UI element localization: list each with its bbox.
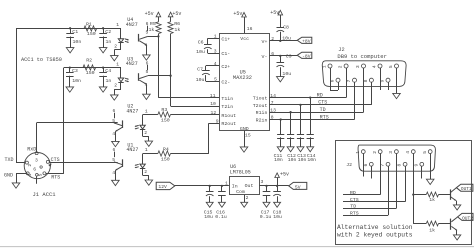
pin number labels MAX232 right and top/bottom	[245, 26, 276, 139]
svg-text:R2out: R2out	[221, 121, 236, 127]
svg-text:J2: J2	[346, 162, 352, 168]
svg-text:2: 2	[246, 195, 249, 201]
wire RTS from J1 pin 5 up to filter row 2	[46, 68, 121, 174]
label alternative solution	[337, 224, 413, 239]
stub alt pin 1	[363, 154, 365, 177]
svg-text:C4: C4	[105, 68, 111, 74]
label RTS	[51, 175, 60, 181]
label J2 (alternative)	[346, 162, 352, 168]
svg-text:4N27: 4N27	[126, 108, 138, 114]
svg-text:MAX232: MAX232	[233, 75, 252, 81]
capacitor C7 10u	[196, 66, 220, 84]
svg-text:DB9 to computer: DB9 to computer	[337, 53, 387, 60]
pin number labels MAX232 left	[210, 33, 219, 124]
svg-text:T1in: T1in	[221, 96, 233, 102]
svg-text:OUT2: OUT2	[462, 215, 473, 221]
capacitor C15 10u	[204, 185, 214, 220]
resistor R5 1k	[149, 17, 162, 34]
svg-text:10u: 10u	[196, 49, 205, 55]
svg-text:3: 3	[355, 65, 361, 68]
wire R6 to T2in and U3 collector node	[148, 34, 172, 106]
label CTS	[318, 100, 327, 106]
wire T2in from node to MAX232 pin 10	[171, 106, 220, 108]
label J2	[338, 47, 344, 53]
svg-text:16: 16	[247, 26, 253, 32]
stub from J1 bottom pin	[36, 176, 38, 184]
power +5v (Vcc pin 16)	[233, 11, 246, 33]
ground (Q2 emitter)	[453, 235, 460, 240]
svg-text:1: 1	[225, 181, 228, 187]
svg-text:10n: 10n	[298, 157, 307, 163]
svg-text:C3: C3	[72, 68, 78, 74]
connector J2 DB9	[321, 61, 406, 87]
IC U5 MAX232	[220, 34, 270, 133]
ground (C12)	[287, 147, 294, 152]
svg-text:1: 1	[321, 65, 327, 68]
svg-text:+5v: +5v	[280, 172, 289, 178]
svg-text:V+: V+	[262, 39, 268, 45]
svg-text:3: 3	[388, 151, 394, 154]
svg-text:1n: 1n	[106, 78, 112, 84]
svg-text:9: 9	[413, 163, 419, 166]
wire CTS (T2out pin 7 to J2 pin 8)	[269, 104, 371, 106]
svg-text:4N27: 4N27	[126, 61, 138, 67]
ground (LED cathode of U1)	[145, 180, 153, 185]
svg-text:1: 1	[116, 61, 119, 67]
ground (C14)	[307, 147, 314, 152]
resistor R4 150	[158, 147, 171, 163]
ground (LED cathode of U4)	[111, 56, 119, 61]
svg-text:15: 15	[245, 133, 251, 139]
optocoupler U2	[112, 103, 149, 141]
capacitor C13 10n	[297, 104, 304, 147]
label J1 ACC1	[33, 191, 57, 198]
wire J2 pin 3 to TD	[363, 68, 365, 112]
svg-text:150: 150	[87, 31, 96, 37]
svg-text:10n: 10n	[307, 157, 316, 163]
svg-text:1: 1	[116, 22, 119, 28]
svg-text:Com: Com	[236, 189, 245, 195]
svg-text:TXD: TXD	[5, 157, 14, 163]
capacitor C18 10u	[273, 185, 282, 220]
label alt RTS	[350, 211, 359, 217]
svg-text:1k: 1k	[149, 27, 155, 33]
wire J2 pin 2 to RD	[346, 68, 348, 98]
ground (alt pin 5)	[426, 179, 434, 184]
resistor base 1k (OUT1)	[426, 192, 450, 203]
svg-text:2: 2	[144, 130, 147, 136]
ground (emitter of U2)	[112, 141, 120, 146]
ground (emitter of U1)	[112, 180, 120, 185]
svg-text:1: 1	[355, 151, 361, 154]
svg-text:C8: C8	[283, 24, 289, 30]
svg-text:10u: 10u	[282, 71, 291, 77]
wire J2 pin 1 to pin 6 tie	[330, 68, 339, 91]
transistor Q2 (OUT2)	[451, 217, 458, 235]
power +5v (C8 top)	[270, 10, 282, 16]
svg-text:+5v: +5v	[145, 11, 154, 17]
capacitor C16 0.1u	[215, 185, 227, 220]
capacitor C4 1n	[99, 66, 111, 92]
svg-text:R3: R3	[161, 107, 167, 113]
svg-text:C2: C2	[105, 29, 111, 35]
svg-text:0.1u: 0.1u	[260, 214, 272, 220]
svg-text:6: 6	[113, 147, 116, 153]
capacitor C11 10n	[277, 118, 284, 146]
svg-text:5V: 5V	[295, 184, 301, 190]
wire alt pin 5 to ground	[430, 154, 432, 180]
svg-text:R4: R4	[163, 147, 169, 153]
net flag +8V	[297, 37, 312, 44]
ground (U6 common)	[241, 202, 248, 207]
svg-text:10u: 10u	[196, 77, 205, 83]
ground (C9)	[277, 77, 285, 82]
wire alt pin 4 keying feed	[412, 154, 426, 224]
svg-text:2: 2	[114, 43, 117, 49]
svg-text:1: 1	[145, 147, 148, 153]
svg-text:R1out: R1out	[221, 113, 236, 119]
wire V+ pin 2 to +8V	[269, 40, 297, 42]
capacitor C14 10n	[307, 96, 314, 146]
label RTS	[320, 114, 329, 120]
ground (C18)	[274, 202, 281, 207]
svg-text:1: 1	[145, 108, 148, 114]
capacitor C3 10n	[66, 66, 81, 92]
svg-text:3: 3	[261, 179, 264, 185]
svg-text:4: 4	[371, 65, 377, 68]
optocoupler U1	[112, 142, 149, 180]
svg-text:12V: 12V	[158, 184, 167, 190]
wire R5 to T1in and U4 collector node	[148, 34, 160, 98]
svg-text:8: 8	[397, 163, 403, 166]
label ACC1 to TS850	[21, 57, 62, 63]
svg-text:RTS: RTS	[350, 211, 359, 217]
wire alt RTS line to pin 7	[343, 166, 389, 215]
svg-text:5: 5	[146, 69, 149, 75]
label CTS	[51, 157, 60, 163]
ground (C11)	[277, 147, 284, 152]
svg-text:2: 2	[338, 65, 344, 68]
ground (emitter of U4)	[143, 55, 151, 60]
svg-text:R2: R2	[86, 57, 92, 63]
svg-text:1k: 1k	[429, 227, 435, 233]
IC U6 LM78L05 regulator	[225, 164, 264, 201]
svg-text:+5v: +5v	[270, 10, 279, 16]
svg-text:10u: 10u	[282, 35, 291, 41]
svg-text:5: 5	[422, 151, 428, 154]
label GND	[4, 173, 13, 179]
resistor R3 150	[158, 107, 171, 123]
svg-text:C1: C1	[72, 29, 78, 35]
ground (C15)	[206, 202, 213, 207]
label RD	[317, 92, 323, 98]
wire J2 pin 7 to RTS	[354, 82, 356, 119]
svg-text:R2in: R2in	[256, 118, 268, 124]
labels C11 C12 C13 C14 values	[274, 153, 317, 163]
wire R2out from MAX232 pin 9 through R4 to U1 LED	[143, 123, 220, 154]
svg-text:R5: R5	[150, 21, 156, 27]
label alt TD	[350, 204, 356, 210]
wire RD (T1out pin 14 to J2 pin 2)	[269, 97, 346, 99]
svg-text:+5v: +5v	[172, 11, 181, 17]
wire RxD from J1 pin 3 up to U2 collector	[37, 123, 118, 152]
svg-text:-8V: -8V	[302, 53, 311, 59]
label alt CTS	[350, 197, 359, 203]
label RxD	[27, 147, 36, 153]
svg-text:2: 2	[27, 164, 33, 167]
wire GND from J1 to ground	[16, 173, 26, 183]
svg-text:RTS: RTS	[320, 114, 329, 120]
svg-text:T2in: T2in	[221, 104, 233, 110]
svg-text:C2-: C2-	[221, 79, 230, 85]
svg-text:CTS: CTS	[350, 197, 359, 203]
svg-text:6: 6	[146, 21, 149, 27]
resistor R6 1k	[168, 17, 180, 34]
wire J2 pin 8 to CTS	[371, 82, 373, 105]
net flag 12V	[156, 182, 175, 190]
svg-text:TD: TD	[350, 204, 356, 210]
svg-text:2: 2	[144, 169, 147, 175]
net flag OUT2	[458, 213, 474, 221]
svg-text:+8V: +8V	[302, 38, 311, 44]
svg-text:OUT1: OUT1	[461, 186, 472, 192]
svg-text:ACC1 to TS850: ACC1 to TS850	[21, 57, 62, 63]
svg-text:1k: 1k	[174, 27, 180, 33]
connector J2 DB9 (alternative)	[355, 145, 436, 171]
wire TD (R1in pin 13 to J2 pin 3)	[269, 112, 363, 114]
ground (MAX232 pin 15)	[240, 147, 248, 152]
svg-text:RxD: RxD	[27, 147, 36, 153]
svg-text:5: 5	[112, 118, 115, 124]
capacitor C12 10n	[287, 111, 294, 147]
resistor R1 150	[84, 21, 97, 37]
power +5v (R5)	[145, 11, 161, 17]
svg-text:3: 3	[35, 157, 38, 163]
svg-text:LM78L05: LM78L05	[230, 170, 251, 176]
svg-text:10n: 10n	[73, 39, 82, 45]
svg-text:Vcc: Vcc	[240, 36, 249, 42]
svg-text:GND: GND	[4, 173, 13, 179]
svg-text:C1+: C1+	[221, 36, 230, 42]
svg-text:10n: 10n	[72, 78, 81, 84]
svg-text:C1-: C1-	[221, 51, 230, 57]
power +5v (regulator output)	[275, 172, 289, 186]
net flag OUT1	[456, 184, 473, 192]
bottom frame line	[0, 246, 474, 248]
wire V- pin 6 to -8V	[269, 55, 297, 57]
resistor R2 150	[83, 57, 96, 76]
svg-text:0.1u: 0.1u	[215, 214, 227, 220]
svg-text:4: 4	[112, 170, 115, 176]
svg-text:10u: 10u	[204, 214, 213, 220]
ground (J2 pin 5)	[393, 93, 401, 98]
optocoupler U4 (U-series)	[114, 17, 148, 56]
svg-text:R1in: R1in	[256, 110, 268, 116]
svg-text:RD: RD	[317, 92, 323, 98]
svg-text:C7: C7	[197, 66, 203, 72]
capacitor C2 1n	[99, 27, 111, 53]
svg-text:C6: C6	[198, 39, 204, 45]
connector J1 (ACC1 DIN socket)	[24, 152, 51, 179]
svg-text:2: 2	[114, 83, 117, 89]
wire J2 pin 5 to ground	[396, 68, 398, 93]
box alternative solution	[336, 141, 472, 245]
svg-text:5: 5	[388, 65, 394, 68]
label alt RD	[350, 190, 356, 196]
svg-text:C2+: C2+	[221, 64, 230, 70]
svg-text:4: 4	[145, 82, 148, 88]
svg-text:T1out: T1out	[253, 96, 268, 102]
wire R1out from MAX232 pin 12 through R3 to U2 LED	[143, 114, 220, 116]
capacitor C17 0.1u	[260, 185, 272, 220]
ground (Q1 emitter)	[453, 205, 460, 210]
wire 12V to regulator input	[175, 185, 229, 187]
svg-text:1k: 1k	[429, 197, 435, 203]
svg-text:10: 10	[210, 101, 216, 107]
wire alt RD line to pin 2	[343, 154, 381, 195]
stub alt pin 6	[371, 166, 373, 178]
svg-text:7: 7	[271, 100, 274, 106]
svg-text:2: 2	[271, 36, 274, 42]
svg-text:11: 11	[210, 93, 216, 99]
ground (LED cathode of U2)	[145, 141, 153, 146]
label TXD	[5, 157, 14, 163]
wire T1in from node to MAX232 pin 11	[158, 97, 219, 99]
wire regulator output to 5V	[259, 185, 288, 187]
wire alt CTS line to pin 8	[343, 166, 406, 202]
svg-text:Out: Out	[245, 183, 254, 189]
ground (C16)	[218, 202, 225, 207]
svg-text:1n: 1n	[106, 39, 112, 45]
svg-text:10n: 10n	[288, 157, 297, 163]
svg-text:In: In	[232, 183, 238, 189]
svg-text:10u: 10u	[273, 214, 282, 220]
ground (LED cathode of U3)	[111, 95, 119, 100]
svg-text:5: 5	[38, 173, 44, 176]
svg-text:4: 4	[112, 131, 115, 137]
svg-text:TD: TD	[320, 107, 326, 113]
svg-text:J1 ACC1: J1 ACC1	[33, 191, 57, 198]
net flag -8V	[297, 52, 312, 59]
stub J2 pin 4	[380, 68, 382, 90]
svg-text:R1: R1	[86, 21, 92, 27]
net flag 5V	[289, 182, 307, 190]
wire alt TD line to pin 3	[343, 154, 397, 209]
svg-text:10n: 10n	[274, 157, 283, 163]
svg-text:4: 4	[145, 43, 148, 49]
capacitor C6 10u	[196, 38, 219, 55]
svg-text:CTS: CTS	[318, 100, 327, 106]
wire RTS (R2in pin 8 to J2 pin 7)	[269, 119, 354, 121]
ground (J1 GND pin)	[12, 183, 20, 188]
ground (C13)	[297, 147, 304, 152]
stub alt pin 9	[421, 166, 423, 178]
svg-text:4: 4	[405, 151, 411, 154]
label TD	[320, 107, 326, 113]
svg-text:2: 2	[372, 151, 378, 154]
optocoupler U3 (U-series)	[114, 56, 148, 95]
wire GND pin 15	[244, 131, 246, 147]
svg-text:4N27: 4N27	[126, 22, 138, 28]
svg-text:150: 150	[86, 70, 95, 76]
wire regulator common pin 2	[244, 195, 246, 202]
svg-text:12: 12	[211, 110, 217, 116]
capacitor C9 10u	[277, 54, 292, 77]
wire TXD from J1 pin 2 to filter row 1	[16, 28, 121, 162]
capacitor C1 10n	[66, 27, 81, 53]
label DB9 to computer	[337, 53, 387, 60]
wire CTS from J1 pin 1 to U1 collector	[49, 162, 117, 164]
ground (emitter of U3)	[143, 94, 151, 99]
svg-text:150: 150	[161, 117, 170, 123]
svg-text:C9: C9	[286, 54, 292, 60]
capacitor C8 10u	[277, 15, 292, 41]
svg-text:Alternative solution: Alternative solution	[337, 224, 413, 231]
svg-text:6: 6	[146, 61, 149, 67]
svg-text:4N27: 4N27	[126, 147, 138, 153]
stub J2 pin 9	[388, 82, 390, 90]
svg-text:RD: RD	[350, 190, 356, 196]
resistor base 1k (OUT2)	[426, 221, 451, 233]
svg-text:RTS: RTS	[51, 175, 60, 181]
svg-text:with 2 keyed outputs: with 2 keyed outputs	[337, 232, 413, 239]
svg-text:V-: V-	[262, 54, 268, 60]
svg-text:R6: R6	[174, 21, 180, 27]
svg-text:9: 9	[216, 118, 219, 124]
svg-text:5: 5	[112, 157, 115, 163]
svg-text:6: 6	[113, 108, 116, 114]
svg-text:6: 6	[271, 51, 274, 57]
svg-text:+5v: +5v	[233, 11, 242, 17]
svg-text:4: 4	[27, 173, 33, 176]
ground (C17)	[263, 202, 270, 207]
power +5v (R6)	[168, 11, 181, 17]
svg-text:150: 150	[161, 157, 170, 163]
svg-text:T2out: T2out	[253, 103, 268, 109]
svg-text:6: 6	[33, 167, 36, 173]
transistor Q1 (OUT1)	[450, 188, 456, 205]
